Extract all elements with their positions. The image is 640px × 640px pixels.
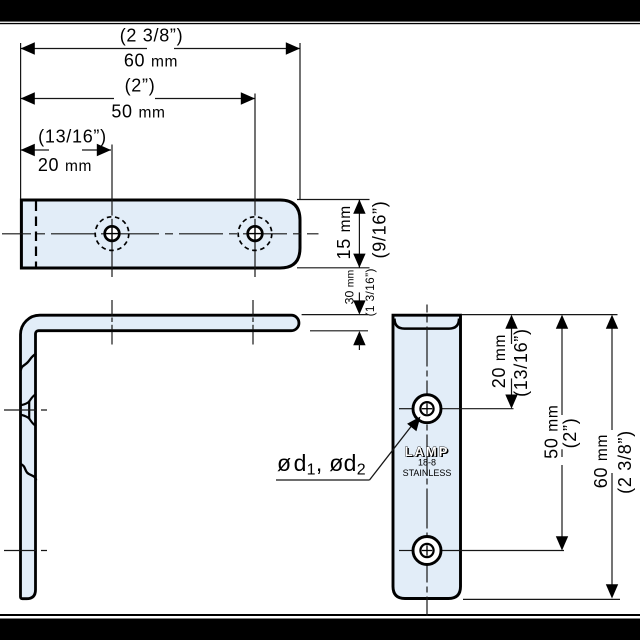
- face view vertical centerline: [426, 305, 428, 617]
- side view hole2 horizontal centerline: [4, 550, 51, 552]
- page footer black bar: [0, 619, 640, 640]
- front view L bracket body: [21, 315, 299, 599]
- dimension 15mm extension line bottom: [297, 267, 370, 269]
- face view plate body: [393, 315, 461, 598]
- svg-text:30 mm: 30 mm: [343, 269, 357, 304]
- svg-text:(2 3/8”): (2 3/8”): [615, 430, 635, 494]
- svg-text:(13/16”): (13/16”): [511, 328, 531, 397]
- dimension 60mm extension line left: [20, 43, 22, 199]
- face view hole2 horizontal centerline to dim: [399, 550, 412, 552]
- svg-text:(13/16”): (13/16”): [38, 127, 107, 147]
- side view break wave 1: [21, 354, 37, 371]
- svg-text:15 mm: 15 mm: [334, 205, 354, 259]
- front view hole2 vertical centerline: [252, 300, 254, 345]
- dimension 50mm vertical line: [556, 315, 568, 551]
- top view bend line (dashed): [35, 202, 37, 267]
- leader label ød1, ød2: [276, 417, 421, 481]
- face view hole2: [413, 537, 441, 565]
- svg-text:ø d1, ød2: ø d1, ød2: [277, 450, 366, 479]
- svg-text:18-8: 18-8: [418, 458, 436, 468]
- svg-text:(1 3/16”): (1 3/16”): [363, 268, 377, 316]
- page header rule: [0, 23, 640, 24]
- dimension 30mm line: [353, 292, 365, 314]
- svg-text:60 mm: 60 mm: [591, 434, 611, 488]
- svg-text:(2 3/8”): (2 3/8”): [120, 26, 184, 46]
- svg-text:60 mm: 60 mm: [124, 51, 178, 71]
- side view break wave 2: [21, 464, 36, 480]
- svg-text:(2”): (2”): [125, 76, 156, 96]
- svg-text:20 mm: 20 mm: [489, 334, 509, 388]
- thickness extension line (arm bottom edge projected): [310, 330, 368, 332]
- dimension 60mm vertical line: [606, 315, 618, 599]
- face view bottom extension line: [463, 598, 620, 600]
- svg-text:(2”): (2”): [560, 418, 580, 449]
- page header black bar: [0, 0, 640, 22]
- dimension 20mm line: [21, 144, 111, 156]
- svg-text:50 mm: 50 mm: [542, 405, 562, 459]
- face view hole1 horizontal centerline to dim: [399, 408, 412, 410]
- dimension 15mm line: [353, 200, 365, 268]
- hole H1 (top view): [95, 217, 129, 251]
- face view hole1: [413, 395, 441, 423]
- hole H1 centerline / extension line x=112: [111, 145, 113, 216]
- hole H2 centerline / extension line x=255: [254, 94, 256, 216]
- hole H2 (top view): [238, 217, 272, 251]
- top view bracket leg body: [21, 200, 300, 268]
- svg-text:(9/16”): (9/16”): [370, 201, 390, 259]
- dimension 15mm extension line top: [297, 199, 370, 201]
- page footer rule: [0, 614, 640, 616]
- dimension 60mm extension line right: [299, 43, 301, 199]
- svg-text:20 mm: 20 mm: [38, 155, 92, 175]
- thickness extension line (arm top edge projected): [302, 314, 368, 316]
- svg-text:STAINLESS: STAINLESS: [403, 468, 452, 478]
- face view bend tangent arc: [395, 319, 460, 329]
- thickness up arrow: [353, 331, 365, 350]
- svg-text:50 mm: 50 mm: [111, 102, 165, 122]
- front view hole1 vertical centerline: [111, 300, 113, 345]
- side view hole1 horizontal centerline: [4, 409, 51, 411]
- side view countersink profile: [21, 394, 37, 426]
- dimension 20mm vertical line: [505, 315, 517, 409]
- top view horizontal centerline: [2, 233, 319, 235]
- face view top extension line: [462, 314, 618, 316]
- dimension 50mm line: [21, 92, 255, 104]
- dimension 60mm line: [21, 42, 300, 54]
